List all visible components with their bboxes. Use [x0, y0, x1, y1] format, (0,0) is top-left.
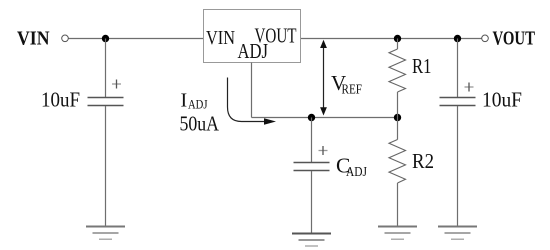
resistor R1 [389, 39, 406, 118]
wire: output rail from regulator VOUT pin to VOUT terminal [301, 38, 482, 40]
current flow arrow I_ADJ [228, 78, 277, 125]
svg-text:ADJ: ADJ [188, 97, 208, 112]
op-amp U1 regulator body [204, 10, 301, 63]
wire: C2 bottom lead [457, 106, 459, 226]
ground (C_ADJ) [292, 234, 331, 247]
resistor R2 [389, 118, 406, 227]
polarity plus of C2 [465, 83, 474, 92]
node: input junction dot [102, 35, 109, 42]
svg-text:I: I [181, 90, 188, 112]
svg-text:ADJ: ADJ [346, 164, 367, 179]
svg-text:50uA: 50uA [180, 111, 220, 135]
capacitor C2 10uF plates [440, 97, 476, 99]
wire: ADJ rail to divider tap [252, 117, 398, 119]
ground (C1) [86, 227, 125, 240]
polarity plus of C1 [112, 80, 121, 89]
wire: C_ADJ bottom lead [311, 171, 313, 233]
node: output junction dot at R1 top [394, 35, 401, 42]
wire: C1 top lead [105, 39, 107, 98]
wire: input rail from VIN terminal to regulator VIN pin [69, 38, 204, 40]
svg-text:VOUT: VOUT [493, 28, 536, 50]
svg-text:VIN: VIN [206, 28, 235, 49]
ground (R2) [378, 227, 417, 240]
capacitor C_ADJ plates [294, 162, 330, 164]
svg-text:R1: R1 [412, 54, 432, 78]
terminal VOUT (open circle) [482, 35, 489, 42]
polarity plus of C_ADJ [319, 146, 328, 155]
svg-text:10uF: 10uF [41, 87, 80, 111]
ground (C2) [438, 227, 477, 240]
node: C_ADJ tap dot [308, 114, 315, 121]
svg-text:VIN: VIN [17, 28, 50, 50]
wire: C1 bottom lead [105, 106, 107, 226]
svg-text:REF: REF [342, 82, 363, 97]
terminal VIN (open circle) [62, 35, 69, 42]
wire: ADJ pin lead down [251, 63, 253, 118]
node: R1/R2 tap dot [394, 114, 401, 121]
wire: C2 top lead [457, 39, 459, 98]
svg-text:ADJ: ADJ [238, 39, 269, 63]
measurement arrow V_REF (double headed) [320, 40, 327, 116]
wire: C_ADJ top lead [311, 118, 313, 163]
svg-text:10uF: 10uF [482, 87, 522, 111]
node: output junction dot at C2 top [454, 35, 461, 42]
svg-text:R2: R2 [412, 149, 434, 173]
capacitor C1 10uF plates [88, 97, 124, 99]
